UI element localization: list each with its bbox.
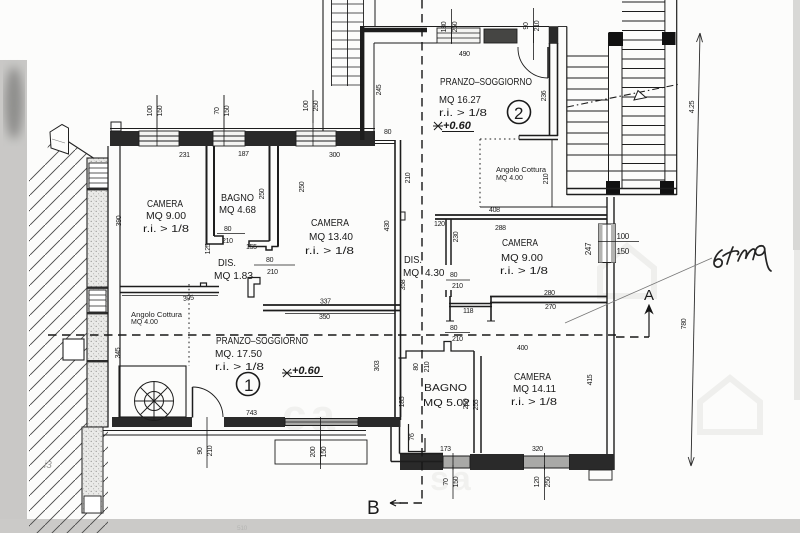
svg-text:80: 80 — [450, 325, 458, 332]
svg-text:780: 780 — [681, 318, 688, 329]
svg-text:236: 236 — [541, 90, 548, 101]
svg-text:PRANZO–SOGGIORNO: PRANZO–SOGGIORNO — [216, 335, 308, 347]
svg-text:ca: ca — [282, 391, 339, 440]
svg-text:MQ 4.68: MQ 4.68 — [219, 205, 256, 216]
svg-text:415: 415 — [587, 374, 594, 385]
svg-text:PRANZO–SOGGIORNO: PRANZO–SOGGIORNO — [440, 76, 532, 88]
svg-text:210: 210 — [207, 445, 214, 456]
svg-text:100: 100 — [147, 105, 154, 116]
svg-text:280: 280 — [544, 290, 555, 297]
svg-text:70: 70 — [443, 478, 450, 486]
svg-text:210: 210 — [222, 238, 233, 245]
svg-text:MQ 4.00: MQ 4.00 — [496, 175, 523, 182]
svg-text:2: 2 — [514, 104, 523, 123]
svg-text:r.i. > 1/8: r.i. > 1/8 — [500, 266, 549, 277]
svg-text:80: 80 — [266, 257, 274, 264]
svg-text:150: 150 — [157, 105, 164, 116]
svg-text:MQ 9.00: MQ 9.00 — [501, 253, 543, 264]
svg-text:120: 120 — [534, 476, 541, 487]
svg-text:270: 270 — [545, 304, 556, 311]
svg-text:MQ 4.00: MQ 4.00 — [131, 319, 158, 326]
svg-text:DIS.: DIS. — [218, 258, 236, 269]
svg-text:MQ 9.00: MQ 9.00 — [146, 211, 186, 222]
svg-text:150: 150 — [321, 446, 328, 457]
svg-text:210: 210 — [405, 172, 412, 183]
svg-text:MQ 1.83: MQ 1.83 — [214, 271, 253, 282]
svg-text:250: 250 — [452, 21, 459, 32]
svg-text:120: 120 — [434, 221, 445, 228]
svg-text:210: 210 — [534, 20, 541, 31]
svg-text:180: 180 — [441, 21, 448, 32]
svg-text:345: 345 — [115, 347, 122, 358]
svg-text:CAMERA: CAMERA — [502, 238, 538, 249]
svg-text:210: 210 — [452, 336, 463, 343]
svg-text:210: 210 — [424, 361, 431, 372]
svg-text:118: 118 — [463, 308, 474, 315]
svg-text:80: 80 — [384, 129, 392, 136]
svg-text:185: 185 — [399, 396, 406, 407]
svg-text:80: 80 — [413, 363, 420, 371]
svg-text:B: B — [367, 498, 380, 519]
svg-text:210: 210 — [452, 283, 463, 290]
svg-text:408: 408 — [489, 207, 500, 214]
svg-text:CAMERA: CAMERA — [311, 217, 349, 229]
svg-text:247: 247 — [584, 242, 593, 255]
svg-text:300: 300 — [329, 152, 340, 159]
svg-text:303: 303 — [374, 360, 381, 371]
svg-text:150: 150 — [617, 247, 630, 256]
svg-text:250: 250 — [299, 181, 306, 192]
svg-text:100: 100 — [303, 100, 310, 111]
svg-text:337: 337 — [320, 299, 331, 306]
svg-text:80: 80 — [450, 272, 458, 279]
svg-text:200: 200 — [310, 446, 317, 457]
svg-text:210: 210 — [543, 173, 550, 184]
svg-text:250: 250 — [545, 476, 552, 487]
svg-text:CAMERA: CAMERA — [514, 372, 551, 383]
svg-text:MQ 13.40: MQ 13.40 — [309, 231, 353, 243]
svg-text:358: 358 — [400, 279, 407, 290]
svg-text:A: A — [644, 287, 654, 304]
svg-text:320: 320 — [532, 446, 543, 453]
svg-text:230: 230 — [453, 231, 460, 242]
svg-text:+0.60: +0.60 — [443, 120, 472, 132]
svg-text:150: 150 — [453, 476, 460, 487]
svg-text:400: 400 — [517, 345, 528, 352]
svg-text:90: 90 — [197, 447, 204, 455]
svg-text:250: 250 — [313, 100, 320, 111]
svg-text:155: 155 — [246, 244, 257, 251]
svg-text:80: 80 — [224, 226, 232, 233]
svg-text:70: 70 — [214, 107, 221, 115]
svg-text:490: 490 — [459, 51, 470, 58]
svg-text:4.25: 4.25 — [689, 100, 696, 113]
svg-text:255: 255 — [473, 399, 480, 410]
svg-text:245: 245 — [376, 84, 383, 95]
svg-text:MQ 16.27: MQ 16.27 — [439, 94, 481, 106]
svg-text:390: 390 — [116, 215, 123, 226]
svg-text:MQ 14.11: MQ 14.11 — [513, 384, 556, 395]
svg-text:4.30: 4.30 — [425, 268, 445, 279]
svg-text:510: 510 — [237, 525, 248, 532]
svg-text:Angolo Cottura: Angolo Cottura — [131, 312, 182, 319]
svg-text:+0.60: +0.60 — [292, 365, 321, 377]
svg-text:MQ: MQ — [403, 268, 419, 279]
svg-text:187: 187 — [238, 151, 249, 158]
svg-text:250: 250 — [259, 188, 266, 199]
svg-text:350: 350 — [319, 314, 330, 321]
svg-text:r.i. > 1/8: r.i. > 1/8 — [305, 245, 354, 257]
svg-text:r.i. > 1/8: r.i. > 1/8 — [143, 224, 190, 235]
svg-text:BAGNO: BAGNO — [221, 193, 254, 204]
svg-text:430: 430 — [384, 220, 391, 231]
svg-text:r.i. > 1/8: r.i. > 1/8 — [215, 361, 264, 373]
svg-text:150: 150 — [224, 105, 231, 116]
svg-text:Angolo Cottura: Angolo Cottura — [496, 167, 546, 174]
svg-text:100: 100 — [617, 232, 630, 241]
svg-text:90: 90 — [523, 22, 530, 30]
svg-text:210: 210 — [267, 269, 278, 276]
svg-text:CAMERA: CAMERA — [147, 199, 183, 210]
svg-text:743: 743 — [246, 410, 257, 417]
svg-text:1: 1 — [244, 376, 253, 395]
svg-text:i3: i3 — [44, 460, 52, 471]
svg-text:173: 173 — [440, 446, 451, 453]
svg-text:r.i. > 1/8: r.i. > 1/8 — [511, 397, 558, 408]
svg-text:125: 125 — [205, 243, 212, 254]
svg-text:231: 231 — [179, 152, 190, 159]
svg-text:MQ. 17.50: MQ. 17.50 — [215, 348, 262, 360]
svg-text:250: 250 — [463, 398, 470, 409]
svg-text:288: 288 — [495, 225, 506, 232]
svg-text:r.i. > 1/8: r.i. > 1/8 — [439, 107, 487, 119]
svg-text:76: 76 — [409, 433, 416, 441]
svg-text:DIS.: DIS. — [404, 255, 422, 266]
svg-text:BAGNO: BAGNO — [424, 383, 467, 394]
